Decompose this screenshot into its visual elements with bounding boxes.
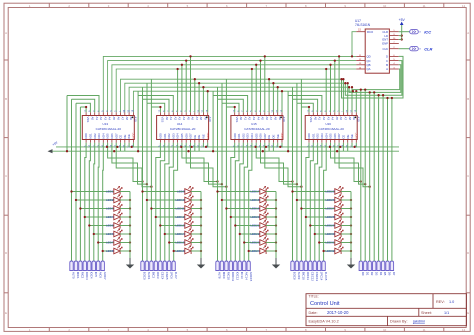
wire address bus band1 line 1: [103, 56, 356, 112]
wire U16 control pin to rail: [342, 143, 344, 151]
svg-text:1/1: 1/1: [444, 311, 449, 315]
svg-text:A5: A5: [261, 117, 265, 121]
U15 bottom pin stub 6: [255, 140, 257, 143]
frame tick bottom: [403, 328, 405, 332]
svg-text:LED15: LED15: [175, 241, 185, 245]
svg-text:A3: A3: [252, 117, 256, 121]
svg-text:12: 12: [462, 4, 466, 8]
wire U14 top pin9 to band2: [194, 79, 196, 112]
wire bus to ground: [129, 251, 131, 262]
LED LED6: [114, 229, 122, 237]
junction: [79, 207, 81, 209]
svg-text:LED14: LED14: [175, 232, 185, 236]
junction: [102, 250, 104, 252]
U13 top pin stub 12: [132, 112, 134, 115]
wire U14 bracket leg to port v0: [142, 99, 144, 261]
U13 top pin stub 10: [124, 112, 126, 115]
port D7: [390, 261, 393, 271]
frame tick right: [466, 59, 470, 61]
svg-text:VCC: VCC: [354, 133, 358, 139]
port CNC5: [163, 261, 166, 271]
junction: [373, 91, 375, 93]
wire bracket U15 leg rise: [212, 91, 214, 95]
port MIC1: [74, 261, 78, 271]
svg-text:AIC6: AIC6: [98, 272, 102, 279]
ground symbol: [272, 258, 280, 269]
junction: [255, 64, 257, 66]
junction: [146, 183, 148, 185]
svg-text:LED27: LED27: [325, 207, 335, 211]
port D3: [373, 261, 376, 271]
frame tick right: [466, 214, 470, 216]
svg-text:LED31: LED31: [325, 241, 335, 245]
junction: [234, 224, 236, 226]
wire bracket U14 pin4: [138, 96, 173, 113]
wire U13 bracket leg to port v0: [71, 99, 73, 261]
U17 ENP pin stub: [389, 42, 398, 44]
wire U14 top pin12 to band2: [207, 91, 209, 112]
U15 pin1 mark: [280, 117, 282, 119]
svg-text:2017-10-20: 2017-10-20: [327, 310, 349, 315]
port HLT8: [216, 261, 219, 271]
wire bracket U15 pin3: [218, 99, 244, 112]
frame tick top: [127, 3, 129, 7]
svg-text:BIC10: BIC10: [302, 272, 306, 280]
U15 bottom pin stub 1: [234, 140, 236, 143]
junction: [360, 88, 362, 90]
U17 QD pin stub: [356, 55, 365, 57]
svg-text:AIC14: AIC14: [244, 272, 248, 280]
LED LED21: [260, 220, 268, 228]
junction: [205, 146, 207, 148]
svg-text:SUC1: SUC1: [147, 272, 151, 280]
svg-text:VSS: VSS: [86, 117, 90, 123]
wire LED32 cathode to bus: [341, 250, 351, 252]
wire U15 top pin11 to band2: [277, 87, 279, 112]
port BIC10: [300, 261, 303, 271]
U17 CLR pin stub: [389, 31, 398, 33]
wire LED24 cathode to bus: [266, 250, 276, 252]
wire U13 I/O7 route right of LEDs: [116, 143, 151, 187]
svg-text:Sheet:: Sheet:: [421, 311, 432, 315]
wire U14 I/O1 to port: [160, 143, 164, 261]
wire counter data to port v4: [378, 95, 380, 261]
svg-text:11: 11: [423, 328, 426, 332]
U14 top pin stub 7: [185, 112, 187, 115]
U14 top pin stub 1: [159, 112, 161, 115]
U13 top pin stub 1: [85, 112, 87, 115]
junction: [386, 97, 388, 99]
junction: [146, 199, 148, 201]
junction: [254, 146, 256, 148]
junction: [129, 233, 131, 235]
LED LED2: [114, 195, 122, 203]
svg-text:IOC12: IOC12: [236, 272, 240, 281]
svg-text:A5: A5: [112, 117, 116, 121]
U16 bottom pin stub 4: [321, 140, 323, 143]
junction: [129, 207, 131, 209]
LED LED31: [335, 237, 343, 245]
svg-text:A3: A3: [178, 117, 182, 121]
wire U16 top pin5 to band1: [325, 69, 327, 112]
wire address bus band1 line 3: [112, 65, 356, 113]
wire tap to LED22: [240, 233, 260, 235]
svg-text:LED12: LED12: [175, 215, 185, 219]
wire LED cathode bus: [200, 192, 202, 252]
wire LED22 cathode to bus: [266, 233, 276, 235]
junction: [275, 250, 277, 252]
U17 RCO pin stub: [356, 31, 365, 33]
wire U14 bracket leg to GND rail: [137, 96, 139, 152]
junction: [181, 64, 183, 66]
svg-text:A2: A2: [173, 117, 177, 121]
wire LED30 cathode to bus: [341, 233, 351, 235]
wire bracket U14 leg rise: [142, 87, 144, 99]
U14 top pin stub 5: [177, 112, 179, 115]
svg-text:E: E: [467, 311, 469, 315]
U14 bottom pin stub 8: [190, 140, 192, 143]
U17 LD pin stub: [389, 35, 398, 37]
port MIC9: [220, 261, 223, 271]
frame tick top: [167, 3, 169, 7]
wire U15 bracket leg to port v0: [217, 99, 219, 261]
svg-text:BIC2: BIC2: [152, 272, 156, 279]
LED LED13: [185, 220, 193, 228]
U16 bottom pin stub 9: [342, 140, 344, 143]
U16 top pin stub 6: [330, 112, 332, 115]
svg-text:D7: D7: [392, 272, 396, 276]
wire LED cathode bus: [275, 192, 277, 252]
ground symbol: [197, 258, 205, 269]
junction: [200, 224, 202, 226]
U14 pin1 mark: [206, 117, 208, 119]
junction: [350, 224, 352, 226]
wire bracket U14 leg rise: [150, 79, 152, 107]
svg-text:ICC: ICC: [424, 29, 431, 34]
title block: [306, 294, 467, 326]
port D0: [359, 261, 362, 271]
svg-text:LED22: LED22: [250, 232, 260, 236]
U16 bottom pin stub 12: [355, 140, 357, 143]
frame tick top: [88, 3, 90, 7]
svg-text:VCC: VCC: [132, 133, 136, 139]
port IOC4: [88, 261, 91, 271]
wire tap to LED32: [324, 250, 335, 252]
U16 bottom pin stub 3: [317, 140, 319, 143]
wire U16 bracket leg to port v1: [296, 103, 298, 261]
U14 bottom pin stub 4: [172, 140, 174, 143]
port ROC3: [83, 261, 86, 271]
wire U16 top pin11 to band2: [351, 87, 353, 112]
wire U13 I/O2 to port: [93, 143, 96, 261]
U13 bottom pin stub 10: [124, 140, 126, 143]
wire RCO to band1: [352, 32, 356, 57]
junction: [308, 106, 310, 108]
wire bracket U14 pin3: [143, 99, 170, 112]
wire U15 I/O6 route right of LEDs: [261, 143, 297, 184]
svg-text:B: B: [5, 97, 7, 101]
svg-text:LED4: LED4: [106, 215, 114, 219]
wire bus to ground: [200, 251, 202, 262]
svg-text:MIC1: MIC1: [76, 272, 80, 279]
U15 top pin stub 7: [260, 112, 262, 115]
junction: [382, 94, 384, 96]
ground symbol: [126, 258, 134, 269]
junction: [85, 106, 87, 108]
svg-text:A: A: [467, 31, 469, 35]
port JPC14: [318, 261, 321, 271]
wire U16 top pin12 to band2: [355, 91, 357, 112]
junction: [340, 78, 342, 80]
junction: [275, 224, 277, 226]
U17 QC pin stub: [356, 60, 365, 62]
wire LED23 cathode to bus: [266, 242, 276, 244]
ground arrow left on rail: [48, 149, 53, 153]
wire tap to LED26: [297, 199, 335, 201]
U14 top pin stub 10: [198, 112, 200, 115]
U13 top pin stub 6: [107, 112, 109, 115]
wire bracket U13 pin3: [72, 99, 95, 112]
junction: [287, 150, 289, 152]
junction: [116, 146, 118, 148]
ground rail: [53, 150, 400, 152]
U13 bottom pin stub 2: [89, 140, 91, 143]
wire address bus band1 line 2: [108, 61, 357, 113]
U17 D pin stub: [389, 55, 398, 57]
wire bus band2 line 4: [133, 91, 353, 112]
LED LED30: [335, 229, 343, 237]
svg-text:U15: U15: [251, 122, 257, 126]
U15 top pin stub 5: [251, 112, 253, 115]
wire U16 top pin7 to band1: [334, 61, 336, 113]
port OIC11: [304, 261, 307, 271]
wire bracket U14 leg rise: [137, 91, 139, 95]
U14 top pin stub 9: [194, 112, 196, 115]
wire U14 I/O0 to port: [156, 143, 161, 261]
frame tick bottom: [206, 328, 208, 332]
wire U15 control pin to rail: [268, 143, 270, 151]
wire U16 I/O4 to port: [324, 143, 327, 261]
LED LED24: [260, 246, 268, 254]
junction: [344, 82, 346, 84]
junction: [268, 78, 270, 80]
U16 bottom pin stub 11: [351, 140, 353, 143]
wire LED26 cathode to bus: [341, 199, 351, 201]
wire tap to LED27: [301, 208, 335, 210]
junction: [200, 199, 202, 201]
wire U14 I/O5 route right of LEDs: [182, 143, 218, 182]
svg-text:A1: A1: [243, 117, 247, 121]
U13 top pin stub 3: [94, 112, 96, 115]
junction: [198, 82, 200, 84]
wire bracket U14 pin1: [151, 107, 160, 112]
wire tap to LED5: [89, 225, 114, 227]
wire U15 I/O1 to port: [235, 143, 239, 261]
junction: [309, 224, 311, 226]
U16 top pin stub 1: [308, 112, 310, 115]
svg-text:HLT0: HLT0: [72, 272, 76, 279]
svg-text:VCC: VCC: [280, 133, 284, 139]
junction: [137, 150, 139, 152]
net flag ICC: [410, 29, 432, 34]
wire LED cathode bus: [350, 192, 352, 252]
wire U14 control pin to rail: [194, 143, 196, 151]
wire U16 control pin to rail: [347, 143, 349, 151]
U14 bottom pin stub 9: [194, 140, 196, 143]
svg-text:AOC7: AOC7: [103, 272, 107, 280]
EEPROM U15 CAT28C16AAL-20: [231, 116, 283, 140]
wire bracket U13 pin1: [80, 107, 86, 112]
junction: [168, 241, 170, 243]
wire LED9 cathode to bus: [191, 191, 201, 193]
svg-text:Drawn By:: Drawn By:: [390, 320, 408, 324]
U13 bottom pin stub 7: [111, 140, 113, 143]
junction: [275, 241, 277, 243]
wire counter data to port v7: [391, 98, 393, 261]
svg-text:C: C: [467, 174, 469, 178]
U16 pin1 mark: [355, 117, 357, 119]
wire tap to LED17: [218, 191, 261, 193]
wire LED28 cathode to bus: [341, 216, 351, 218]
svg-text:VSS: VSS: [309, 117, 313, 123]
LED LED29: [335, 220, 343, 228]
svg-text:SUC9: SUC9: [297, 272, 301, 280]
port ROC11: [229, 261, 232, 271]
port JPC6: [168, 261, 171, 271]
wire LED31 cathode to bus: [341, 242, 351, 244]
wire LED10 cathode to bus: [191, 199, 201, 201]
svg-text:EasyEDA V4.10.2: EasyEDA V4.10.2: [309, 320, 339, 324]
wire U14 I/O3 to port: [169, 143, 173, 261]
U14 bottom pin stub 10: [198, 140, 200, 143]
wire U16 bracket leg to GND rail: [287, 96, 289, 152]
LED LED1: [114, 186, 122, 194]
junction: [88, 224, 90, 226]
junction: [159, 224, 161, 226]
frame tick bottom: [246, 328, 248, 332]
svg-text:RIC2: RIC2: [81, 272, 85, 279]
frame tick left: [4, 59, 8, 61]
junction: [369, 186, 371, 188]
svg-text:10: 10: [383, 4, 387, 8]
junction: [230, 216, 232, 218]
LED LED22: [260, 229, 268, 237]
wire tap to LED15: [169, 242, 185, 244]
svg-text:A8: A8: [125, 117, 129, 121]
svg-text:JPC6: JPC6: [169, 272, 173, 279]
LED LED12: [185, 212, 193, 220]
svg-text:JPC14: JPC14: [319, 272, 323, 281]
wire bracket U16 pin3: [293, 99, 318, 112]
wire tap to LED7: [98, 242, 114, 244]
U14 bottom pin stub 1: [159, 140, 161, 143]
junction: [353, 146, 355, 148]
svg-text:LED24: LED24: [250, 249, 260, 253]
svg-text:LED32: LED32: [325, 249, 335, 253]
wire U15 top pin9 to band2: [268, 79, 270, 112]
junction: [350, 216, 352, 218]
U14 bottom pin stub 5: [177, 140, 179, 143]
svg-text:+5V: +5V: [399, 18, 406, 22]
junction: [155, 216, 157, 218]
junction: [348, 86, 350, 88]
svg-text:LED2: LED2: [106, 198, 114, 202]
port BIC2: [150, 261, 153, 271]
junction: [296, 199, 298, 201]
junction: [401, 34, 403, 36]
wire tap to LED6: [94, 233, 114, 235]
svg-text:A7: A7: [269, 117, 273, 121]
wire bracket U16 pin4: [288, 96, 322, 113]
junction: [202, 86, 204, 88]
svg-text:LED16: LED16: [175, 249, 185, 253]
U16 bottom pin stub 10: [347, 140, 349, 143]
junction: [200, 207, 202, 209]
junction: [360, 180, 362, 182]
LED LED18: [260, 195, 268, 203]
wire U13 bracket leg to GND rail: [66, 96, 68, 152]
wire U16 I/O6 route right of LEDs: [335, 143, 365, 184]
wire U16 I/O7 route right of LEDs: [339, 143, 370, 187]
wire U15 top pin10 to band2: [272, 83, 274, 112]
frame tick top: [285, 3, 287, 7]
svg-text:B: B: [467, 97, 469, 101]
svg-text:D1: D1: [365, 272, 369, 276]
svg-text:D3: D3: [374, 272, 378, 276]
svg-text:A5: A5: [186, 117, 190, 121]
svg-text:CAT28C16AAL-20: CAT28C16AAL-20: [244, 127, 270, 131]
wire U14 top pin5 to band1: [177, 69, 179, 112]
wire LED2 cathode to bus: [120, 199, 130, 201]
svg-text:CNC13: CNC13: [315, 272, 319, 282]
junction: [150, 186, 152, 188]
EEPROM U13 CAT28C16AAL-20: [82, 116, 134, 140]
junction: [305, 216, 307, 218]
counter U17 74LS161N: [365, 29, 389, 73]
junction: [329, 146, 331, 148]
wire bracket U15 pin2: [222, 103, 239, 112]
wire tap to LED21: [235, 225, 260, 227]
junction: [300, 186, 302, 188]
wire CLK to CLR flag: [399, 48, 410, 50]
wire U13 control pin to rail: [128, 143, 130, 147]
LED LED4: [114, 212, 122, 220]
U13 bottom pin stub 11: [128, 140, 130, 143]
svg-text:CLK: CLK: [383, 47, 389, 51]
svg-text:A6: A6: [265, 117, 269, 121]
junction: [291, 180, 293, 182]
wire U15 top pin12 to band2: [281, 91, 283, 112]
U15 bottom pin stub 8: [264, 140, 266, 143]
port IIC13: [238, 261, 241, 271]
wire U16 I/O1 to port: [310, 143, 313, 261]
U16 top pin stub 2: [312, 112, 314, 115]
junction: [347, 82, 349, 84]
frame tick bottom: [364, 328, 366, 332]
junction: [350, 199, 352, 201]
port IIC5: [92, 261, 96, 271]
wire U14 I/O6 route right of LEDs: [186, 143, 222, 184]
U15 top pin stub 2: [238, 112, 240, 115]
wire tap to LED2: [76, 199, 114, 201]
svg-text:D4: D4: [379, 272, 383, 276]
wire bracket U15 leg rise: [225, 79, 227, 107]
port CNC13: [313, 261, 316, 271]
wire U15 top pin8 to band1: [264, 56, 266, 112]
svg-text:OIC3: OIC3: [156, 272, 160, 279]
wire U14 I/O7 route right of LEDs: [191, 143, 227, 187]
U17 B pin stub: [389, 64, 398, 66]
